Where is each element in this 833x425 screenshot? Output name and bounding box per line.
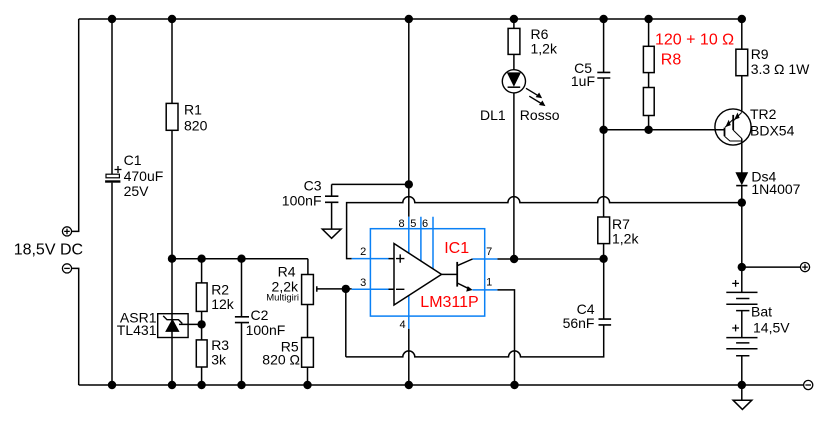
svg-text:3k: 3k xyxy=(211,352,227,368)
svg-text:LM311P: LM311P xyxy=(420,294,478,311)
svg-text:56nF: 56nF xyxy=(563,315,595,331)
svg-text:C2: C2 xyxy=(251,307,269,323)
svg-text:14,5V: 14,5V xyxy=(753,320,790,336)
svg-text:820 Ω: 820 Ω xyxy=(262,352,300,368)
svg-text:TR2: TR2 xyxy=(750,106,777,122)
svg-text:100nF: 100nF xyxy=(246,322,286,338)
svg-text:IC1: IC1 xyxy=(444,240,469,257)
svg-text:6: 6 xyxy=(422,218,428,230)
svg-text:18,5V DC: 18,5V DC xyxy=(14,242,83,259)
svg-text:5: 5 xyxy=(410,218,416,230)
svg-text:1,2k: 1,2k xyxy=(531,41,558,57)
svg-text:12k: 12k xyxy=(211,296,235,312)
svg-text:R9: R9 xyxy=(751,46,769,62)
svg-text:8: 8 xyxy=(399,218,405,230)
svg-text:1: 1 xyxy=(486,277,492,289)
svg-text:BDX54: BDX54 xyxy=(750,123,795,139)
svg-text:470uF: 470uF xyxy=(124,168,164,184)
svg-text:120 + 10 Ω: 120 + 10 Ω xyxy=(655,32,734,49)
svg-text:C1: C1 xyxy=(124,152,142,168)
svg-text:4: 4 xyxy=(399,319,405,331)
svg-text:DL1: DL1 xyxy=(480,107,506,123)
svg-text:3: 3 xyxy=(360,277,366,289)
svg-text:1uF: 1uF xyxy=(571,73,595,89)
svg-text:R8: R8 xyxy=(661,52,682,69)
svg-text:100nF: 100nF xyxy=(282,192,322,208)
svg-text:C3: C3 xyxy=(304,177,322,193)
svg-text:820: 820 xyxy=(184,118,208,134)
svg-text:Rosso: Rosso xyxy=(520,107,560,123)
svg-text:R1: R1 xyxy=(184,102,202,118)
svg-text:2: 2 xyxy=(360,246,366,258)
svg-text:TL431: TL431 xyxy=(117,322,157,338)
svg-text:Bat: Bat xyxy=(751,304,772,320)
svg-text:1N4007: 1N4007 xyxy=(751,181,800,197)
svg-text:3.3 Ω 1W: 3.3 Ω 1W xyxy=(751,61,810,77)
svg-text:7: 7 xyxy=(486,246,492,258)
svg-text:Multigiri: Multigiri xyxy=(266,292,299,303)
svg-text:25V: 25V xyxy=(124,183,150,199)
svg-text:R4: R4 xyxy=(278,263,296,279)
svg-text:1,2k: 1,2k xyxy=(612,231,639,247)
